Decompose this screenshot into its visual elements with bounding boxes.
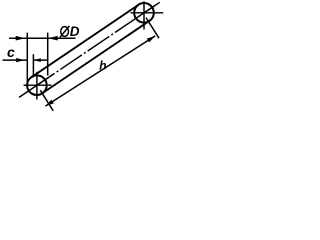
left circle vertical centerline xyxy=(36,72,38,100)
arrow c right (points left) xyxy=(34,58,41,62)
pin body upper tangent line xyxy=(31,5,138,77)
dimension line for D xyxy=(9,37,76,39)
left circle horizontal centerline xyxy=(24,84,52,86)
axis solid across left circle xyxy=(27,78,48,92)
extension line for c (chamfer edge) xyxy=(32,54,34,77)
dimension line for c (right part) xyxy=(34,59,47,61)
extension line left of D (tangent left of circle) xyxy=(26,33,28,84)
dimension line for c (left part) xyxy=(3,59,28,61)
axis solid across right circle xyxy=(134,6,155,20)
left end circle xyxy=(27,75,47,95)
axis centerline dash-dot xyxy=(19,2,160,97)
dimension line for h xyxy=(45,36,155,106)
right end circle xyxy=(134,3,154,23)
extension line for h at right end xyxy=(146,18,159,39)
right circle horizontal centerline xyxy=(131,12,164,14)
svg-text:h: h xyxy=(99,58,106,72)
svg-text:c: c xyxy=(7,44,15,60)
arrow D left (points right at left extension line) xyxy=(16,36,26,41)
extension line for h at left end xyxy=(40,90,53,111)
arrow h left (points down-left) xyxy=(45,100,53,107)
extension line right of D (tangent right of circle) xyxy=(47,33,49,76)
arrow D right (points left at right extension line) xyxy=(48,36,58,41)
arrow c left (points right) xyxy=(16,58,25,62)
label diameter symbol xyxy=(60,26,70,37)
right circle vertical centerline xyxy=(143,1,145,29)
pin body lower tangent line xyxy=(42,21,149,93)
arrow h right (points up-right) xyxy=(147,36,155,43)
svg-text:D: D xyxy=(70,24,80,39)
